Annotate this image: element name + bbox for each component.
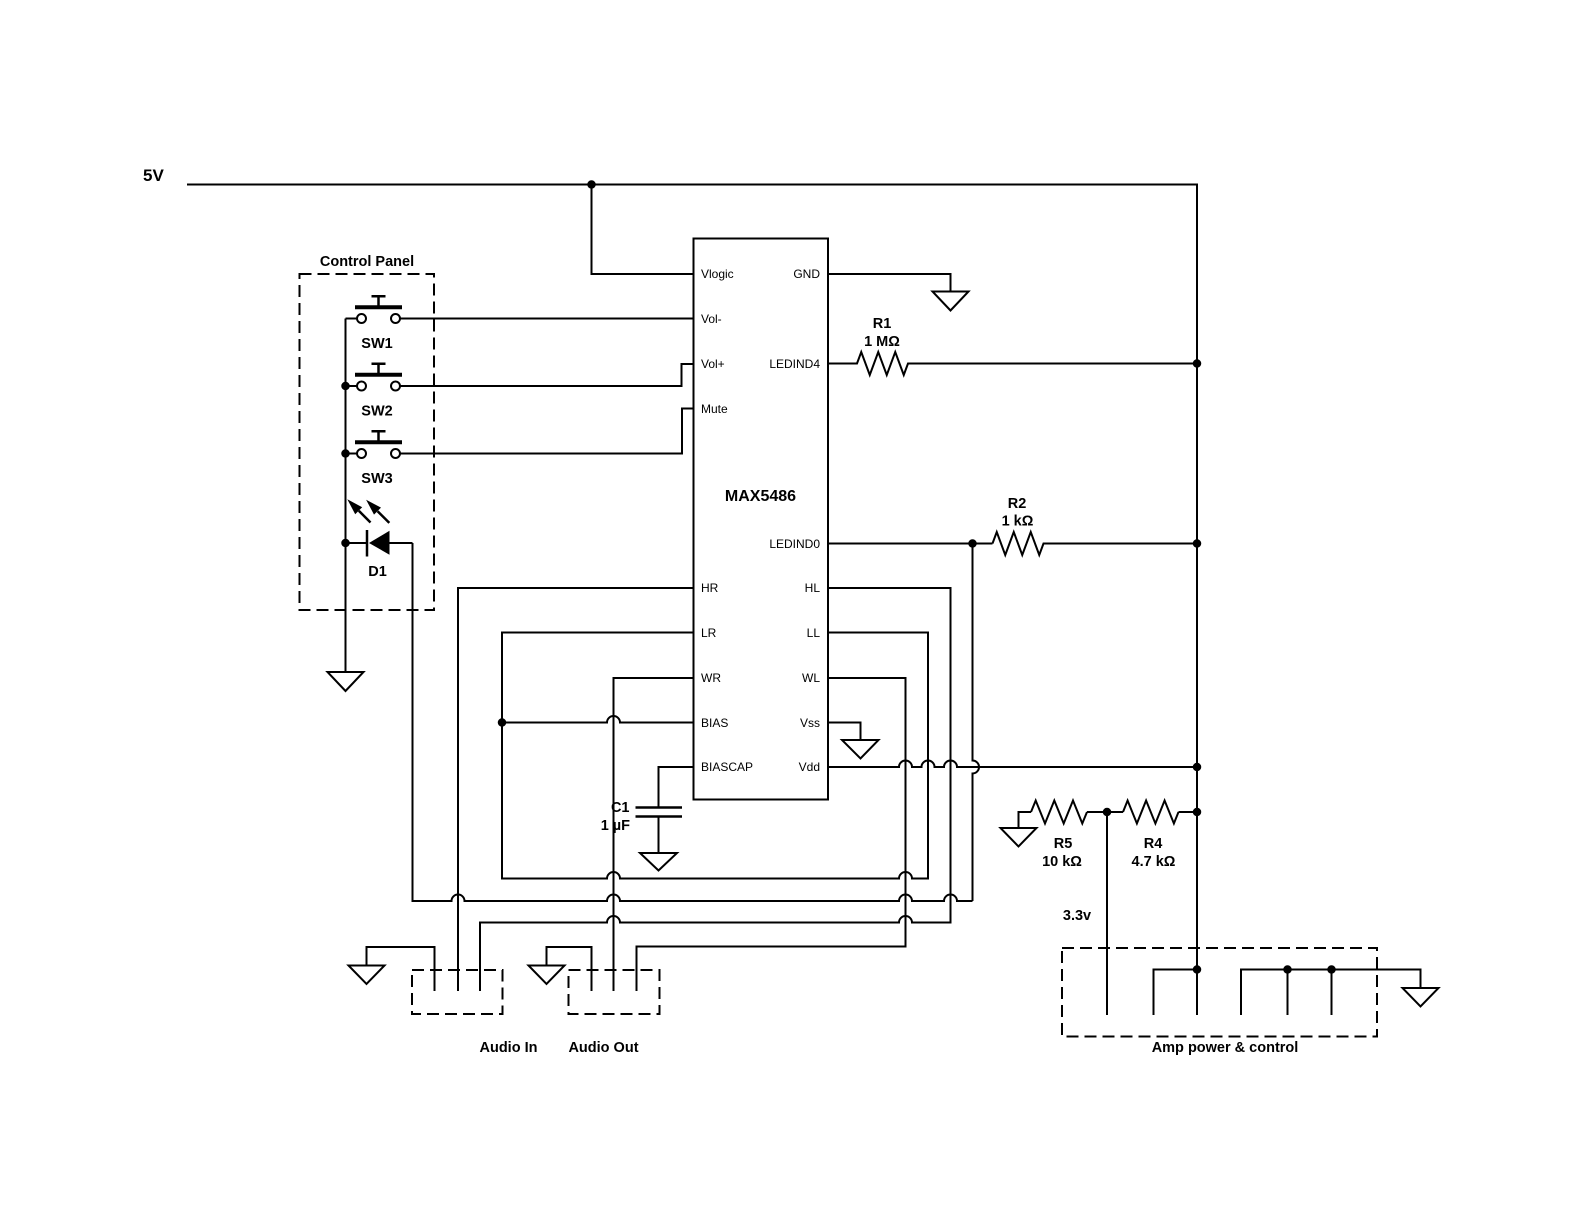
junction Vdd-rail xyxy=(1193,763,1202,772)
svg-text:Vdd: Vdd xyxy=(799,760,820,774)
op-amp U1 MAX5486 body xyxy=(694,239,829,800)
svg-text:Mute: Mute xyxy=(701,402,728,416)
svg-text:LL: LL xyxy=(807,626,821,640)
wire WR to Audio Out pin 2 xyxy=(614,678,694,991)
resistor R1 xyxy=(828,352,1197,375)
ground Vss xyxy=(842,740,879,759)
svg-text:HR: HR xyxy=(701,581,719,595)
wire control panel rail xyxy=(345,319,347,673)
ground Audio In xyxy=(349,966,385,985)
svg-text:LR: LR xyxy=(701,626,717,640)
ground R5 xyxy=(1019,812,1032,828)
svg-text:Audio Out: Audio Out xyxy=(568,1040,638,1056)
svg-text:Audio In: Audio In xyxy=(480,1040,538,1056)
ground C1 xyxy=(640,853,677,871)
svg-text:R4: R4 xyxy=(1144,836,1163,852)
junction SW2 xyxy=(341,382,350,391)
svg-text:SW3: SW3 xyxy=(361,471,392,487)
svg-text:5V: 5V xyxy=(143,166,164,185)
LED D1 xyxy=(346,542,368,544)
wire HR to Audio In pin 2 xyxy=(458,588,693,991)
wire 5V top rail and right rail xyxy=(187,185,1197,1016)
ground GND xyxy=(933,292,969,311)
wire Vlogic feed xyxy=(592,185,694,275)
svg-text:HL: HL xyxy=(805,581,821,595)
svg-text:WL: WL xyxy=(802,671,820,685)
Audio In dashed box xyxy=(412,970,503,1014)
svg-text:R1: R1 xyxy=(873,316,892,332)
junction BIAS-LR xyxy=(498,718,507,727)
wire R4 to rail xyxy=(1179,811,1198,813)
junction D1 xyxy=(341,539,350,548)
junction amp stub 3 xyxy=(1327,965,1336,974)
svg-text:4.7 kΩ: 4.7 kΩ xyxy=(1132,854,1176,870)
svg-text:Vlogic: Vlogic xyxy=(701,267,734,281)
Amp power and control dashed box xyxy=(1062,948,1377,1037)
junction amp-rail xyxy=(1193,965,1202,974)
junction SW3 xyxy=(341,449,350,458)
control panel dashed box xyxy=(300,274,435,610)
svg-text:SW2: SW2 xyxy=(361,404,392,420)
svg-text:Amp power & control: Amp power & control xyxy=(1152,1040,1299,1056)
svg-text:1 MΩ: 1 MΩ xyxy=(864,334,900,350)
ground control panel xyxy=(328,672,364,691)
svg-text:Vol-: Vol- xyxy=(701,312,722,326)
junction R1-rail xyxy=(1193,359,1202,368)
svg-text:BIASCAP: BIASCAP xyxy=(701,760,753,774)
svg-text:LEDIND4: LEDIND4 xyxy=(769,357,820,371)
ground Audio Out xyxy=(529,966,565,985)
svg-text:WR: WR xyxy=(701,671,721,685)
junction LEDIND0 branch xyxy=(968,539,977,548)
wire R5-R4 node xyxy=(1087,811,1123,813)
svg-text:Vss: Vss xyxy=(800,716,820,730)
ground amp xyxy=(1403,988,1439,1007)
wire LR to LL loop (via bus) xyxy=(502,633,928,879)
wire BIAS xyxy=(502,716,693,723)
svg-text:R2: R2 xyxy=(1008,496,1027,512)
svg-text:R5: R5 xyxy=(1054,836,1073,852)
resistor R4 xyxy=(1123,801,1179,824)
switch SW1 xyxy=(346,318,358,320)
wire Vss xyxy=(828,723,861,741)
wire Vol- to SW1 xyxy=(400,318,693,320)
junction 3.3v node xyxy=(1103,808,1112,817)
wire D1 to LEDIND0 (bus line B) xyxy=(413,543,973,901)
junction amp stub 2 xyxy=(1283,965,1292,974)
svg-text:1 µF: 1 µF xyxy=(601,818,630,834)
wire amp control stubs to ground xyxy=(1241,970,1421,1016)
svg-text:1 kΩ: 1 kΩ xyxy=(1002,514,1034,530)
svg-text:C1: C1 xyxy=(611,800,630,816)
Audio Out dashed box xyxy=(569,970,660,1014)
wire Mute to SW3 xyxy=(400,409,693,454)
junction R4-rail xyxy=(1193,808,1202,817)
resistor R5 xyxy=(1031,801,1087,824)
svg-text:MAX5486: MAX5486 xyxy=(725,488,796,505)
capacitor C1 xyxy=(636,808,683,817)
svg-text:Control Panel: Control Panel xyxy=(320,254,414,270)
svg-text:10 kΩ: 10 kΩ xyxy=(1042,854,1082,870)
junction R2-rail xyxy=(1193,539,1202,548)
svg-text:LEDIND0: LEDIND0 xyxy=(769,537,820,551)
resistor R2 xyxy=(993,532,1198,555)
wire BIASCAP to C1 xyxy=(659,767,694,808)
switch SW3 xyxy=(346,453,358,455)
wire 3.3v to amp box xyxy=(1106,812,1108,1015)
wire Vdd to rail xyxy=(828,761,1197,767)
svg-text:GND: GND xyxy=(793,267,820,281)
wire Audio Out pin 1 to ground xyxy=(547,947,592,991)
wire GND pin xyxy=(828,274,951,292)
svg-text:SW1: SW1 xyxy=(361,336,392,352)
wire HL to Audio In pin 3 (via bus) xyxy=(480,588,951,991)
wire LEDIND0 xyxy=(828,543,993,545)
switch SW2 xyxy=(346,385,358,387)
svg-text:3.3v: 3.3v xyxy=(1063,908,1091,924)
junction 5V-Vlogic xyxy=(587,180,596,189)
wire WL to Audio Out pin 3 xyxy=(637,678,906,991)
wire Vol+ to SW2 xyxy=(400,364,693,386)
svg-text:BIAS: BIAS xyxy=(701,716,728,730)
svg-text:D1: D1 xyxy=(368,564,387,580)
wire Audio In pin 1 to ground xyxy=(367,947,435,991)
svg-text:Vol+: Vol+ xyxy=(701,357,725,371)
LED D1 emission arrows xyxy=(359,511,371,523)
wire LEDIND0 branch down to D1 bus xyxy=(973,544,980,902)
wire amp power stub to rail xyxy=(1154,970,1198,1016)
